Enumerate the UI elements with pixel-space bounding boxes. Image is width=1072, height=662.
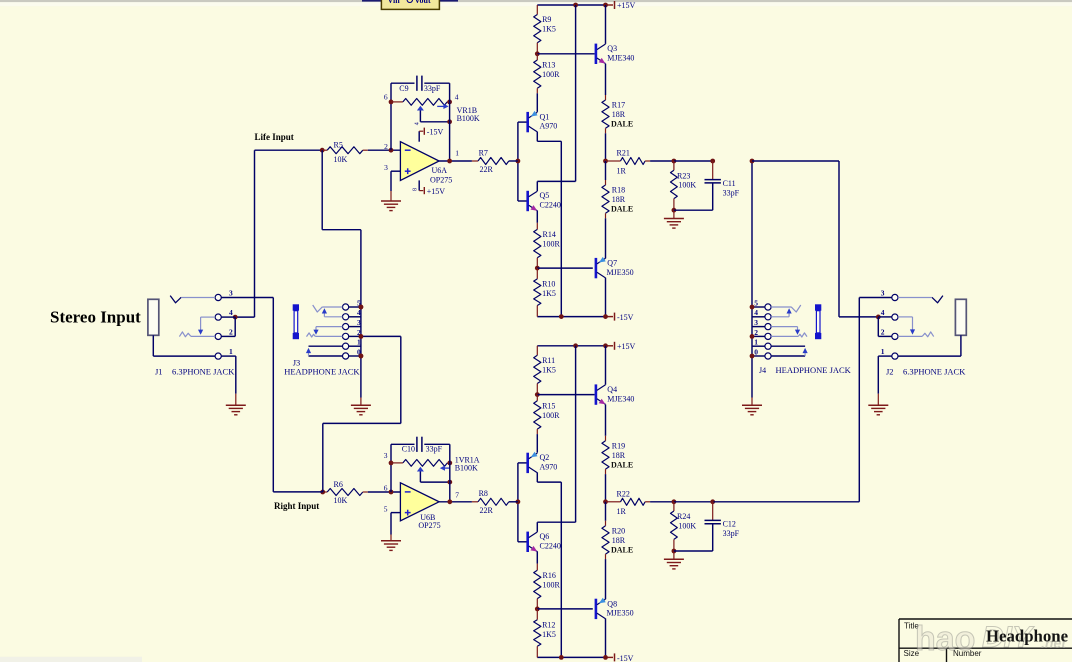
svg-text:3: 3 [384, 163, 388, 172]
svg-text:HEADPHONE JACK: HEADPHONE JACK [284, 366, 360, 376]
svg-text:Stereo Input: Stereo Input [50, 308, 141, 327]
svg-text:5: 5 [754, 298, 758, 307]
svg-text:3: 3 [384, 451, 388, 460]
svg-text:33pF: 33pF [723, 529, 740, 538]
svg-text:1R: 1R [617, 166, 627, 175]
svg-text:1: 1 [881, 347, 885, 356]
svg-text:1: 1 [754, 338, 758, 347]
svg-text:1: 1 [357, 338, 361, 347]
svg-text:6: 6 [384, 484, 388, 493]
svg-text:Q2: Q2 [540, 453, 550, 462]
svg-text:Q8: Q8 [607, 599, 617, 608]
svg-text:6.3PHONE JACK: 6.3PHONE JACK [172, 366, 235, 376]
svg-text:C12: C12 [723, 520, 736, 529]
svg-text:1K5: 1K5 [542, 25, 556, 34]
svg-text:R21: R21 [617, 149, 630, 158]
svg-text:18R: 18R [612, 536, 626, 545]
svg-text:10K: 10K [334, 155, 348, 164]
svg-text:22R: 22R [480, 165, 494, 174]
svg-text:C9: C9 [399, 84, 408, 93]
svg-text:-15V: -15V [427, 127, 444, 136]
svg-text:2: 2 [384, 142, 388, 151]
svg-text:MJE340: MJE340 [607, 394, 634, 403]
svg-text:33pF: 33pF [426, 444, 443, 453]
svg-text:100R: 100R [543, 580, 561, 589]
svg-text:DALE: DALE [611, 460, 633, 469]
svg-text:18R: 18R [612, 110, 626, 119]
svg-text:DALE: DALE [611, 545, 633, 554]
svg-text:+15V: +15V [427, 187, 446, 196]
svg-text:Life Input: Life Input [255, 132, 294, 142]
svg-text:2: 2 [754, 328, 758, 337]
svg-text:Q3: Q3 [607, 44, 617, 53]
svg-text:R11: R11 [542, 356, 555, 365]
svg-text:2: 2 [229, 327, 233, 336]
svg-text:R15: R15 [542, 402, 555, 411]
svg-text:10K: 10K [334, 496, 348, 505]
svg-text:1R: 1R [617, 507, 627, 516]
svg-text:18R: 18R [612, 195, 626, 204]
svg-text:R20: R20 [612, 527, 625, 536]
svg-text:OP275: OP275 [430, 176, 452, 185]
svg-text:C10: C10 [402, 444, 415, 453]
svg-text:33pF: 33pF [723, 188, 740, 197]
svg-text:Q7: Q7 [607, 259, 617, 268]
svg-text:100R: 100R [542, 70, 560, 79]
svg-text:33pF: 33pF [424, 84, 441, 93]
svg-text:A970: A970 [540, 122, 558, 131]
svg-text:MJE340: MJE340 [607, 54, 634, 63]
svg-text:4: 4 [754, 308, 758, 317]
svg-text:R22: R22 [617, 489, 630, 498]
svg-text:Vout: Vout [415, 0, 431, 5]
svg-text:3: 3 [754, 318, 758, 327]
svg-text:R23: R23 [677, 171, 690, 180]
svg-text:Vin: Vin [388, 0, 401, 5]
svg-text:OP275: OP275 [418, 521, 440, 530]
svg-text:Q1: Q1 [540, 112, 550, 121]
svg-text:-15V: -15V [617, 654, 634, 662]
svg-text:4: 4 [455, 92, 459, 101]
svg-text:DALE: DALE [611, 205, 633, 214]
svg-text:2: 2 [881, 327, 885, 336]
svg-text:R6: R6 [334, 480, 343, 489]
svg-text:1K5: 1K5 [542, 630, 556, 639]
svg-text:C2240: C2240 [540, 201, 561, 210]
svg-text:R8: R8 [479, 489, 488, 498]
svg-text:MJE350: MJE350 [607, 268, 634, 277]
svg-text:7: 7 [455, 491, 459, 500]
svg-text:R16: R16 [543, 571, 556, 580]
svg-text:4: 4 [881, 308, 885, 317]
svg-text:R18: R18 [612, 186, 625, 195]
svg-text:6: 6 [384, 92, 388, 101]
svg-text:DALE: DALE [611, 120, 633, 129]
svg-text:R10: R10 [542, 280, 555, 289]
svg-text:5: 5 [384, 504, 388, 513]
svg-text:8: 8 [412, 188, 418, 191]
svg-text:Q4: Q4 [607, 385, 617, 394]
svg-text:Q6: Q6 [540, 532, 550, 541]
svg-text:4: 4 [229, 308, 233, 317]
svg-text:4: 4 [414, 122, 420, 125]
svg-text:18R: 18R [612, 451, 626, 460]
svg-text:100R: 100R [542, 411, 560, 420]
svg-text:100R: 100R [543, 240, 561, 249]
svg-text:C2240: C2240 [540, 541, 561, 550]
svg-text:J1: J1 [155, 366, 163, 376]
svg-text:100K: 100K [678, 522, 696, 531]
svg-text:100K: 100K [678, 181, 696, 190]
svg-text:1: 1 [455, 148, 459, 157]
svg-text:R12: R12 [542, 620, 555, 629]
svg-text:3: 3 [881, 289, 885, 298]
svg-text:R9: R9 [542, 15, 551, 24]
svg-text:hao: hao [915, 620, 975, 658]
svg-text:1K5: 1K5 [542, 365, 556, 374]
svg-text:1K5: 1K5 [542, 289, 556, 298]
svg-text:HEADPHONE JACK: HEADPHONE JACK [776, 365, 852, 375]
svg-text:4: 4 [357, 308, 361, 317]
svg-text:MJE350: MJE350 [607, 609, 634, 618]
svg-text:J2: J2 [886, 366, 894, 376]
svg-text:J4: J4 [759, 366, 766, 375]
svg-text:-15V: -15V [617, 313, 634, 322]
svg-text:R19: R19 [612, 442, 625, 451]
svg-text:Q5: Q5 [540, 191, 550, 200]
svg-text:B100K: B100K [457, 114, 480, 123]
svg-text:U6A: U6A [432, 166, 448, 175]
svg-text:3: 3 [357, 318, 361, 327]
svg-text:1: 1 [229, 347, 233, 356]
svg-text:R24: R24 [677, 512, 690, 521]
svg-text:0: 0 [754, 347, 758, 356]
svg-text:6.3PHONE JACK: 6.3PHONE JACK [903, 366, 966, 376]
svg-text:R7: R7 [479, 148, 488, 157]
svg-text:C11: C11 [723, 179, 736, 188]
svg-text:+15V: +15V [617, 342, 636, 351]
svg-text:R14: R14 [543, 230, 556, 239]
svg-text:Right Input: Right Input [274, 501, 319, 511]
svg-text:22R: 22R [480, 506, 494, 515]
svg-text:R17: R17 [612, 101, 625, 110]
svg-text:+15V: +15V [617, 1, 636, 10]
svg-text:3: 3 [229, 289, 233, 298]
svg-text:R13: R13 [542, 61, 555, 70]
svg-text:B100K: B100K [455, 463, 478, 472]
svg-text:Headphone: Headphone [986, 627, 1069, 646]
svg-text:R5: R5 [334, 141, 343, 150]
svg-text:A970: A970 [540, 463, 558, 472]
